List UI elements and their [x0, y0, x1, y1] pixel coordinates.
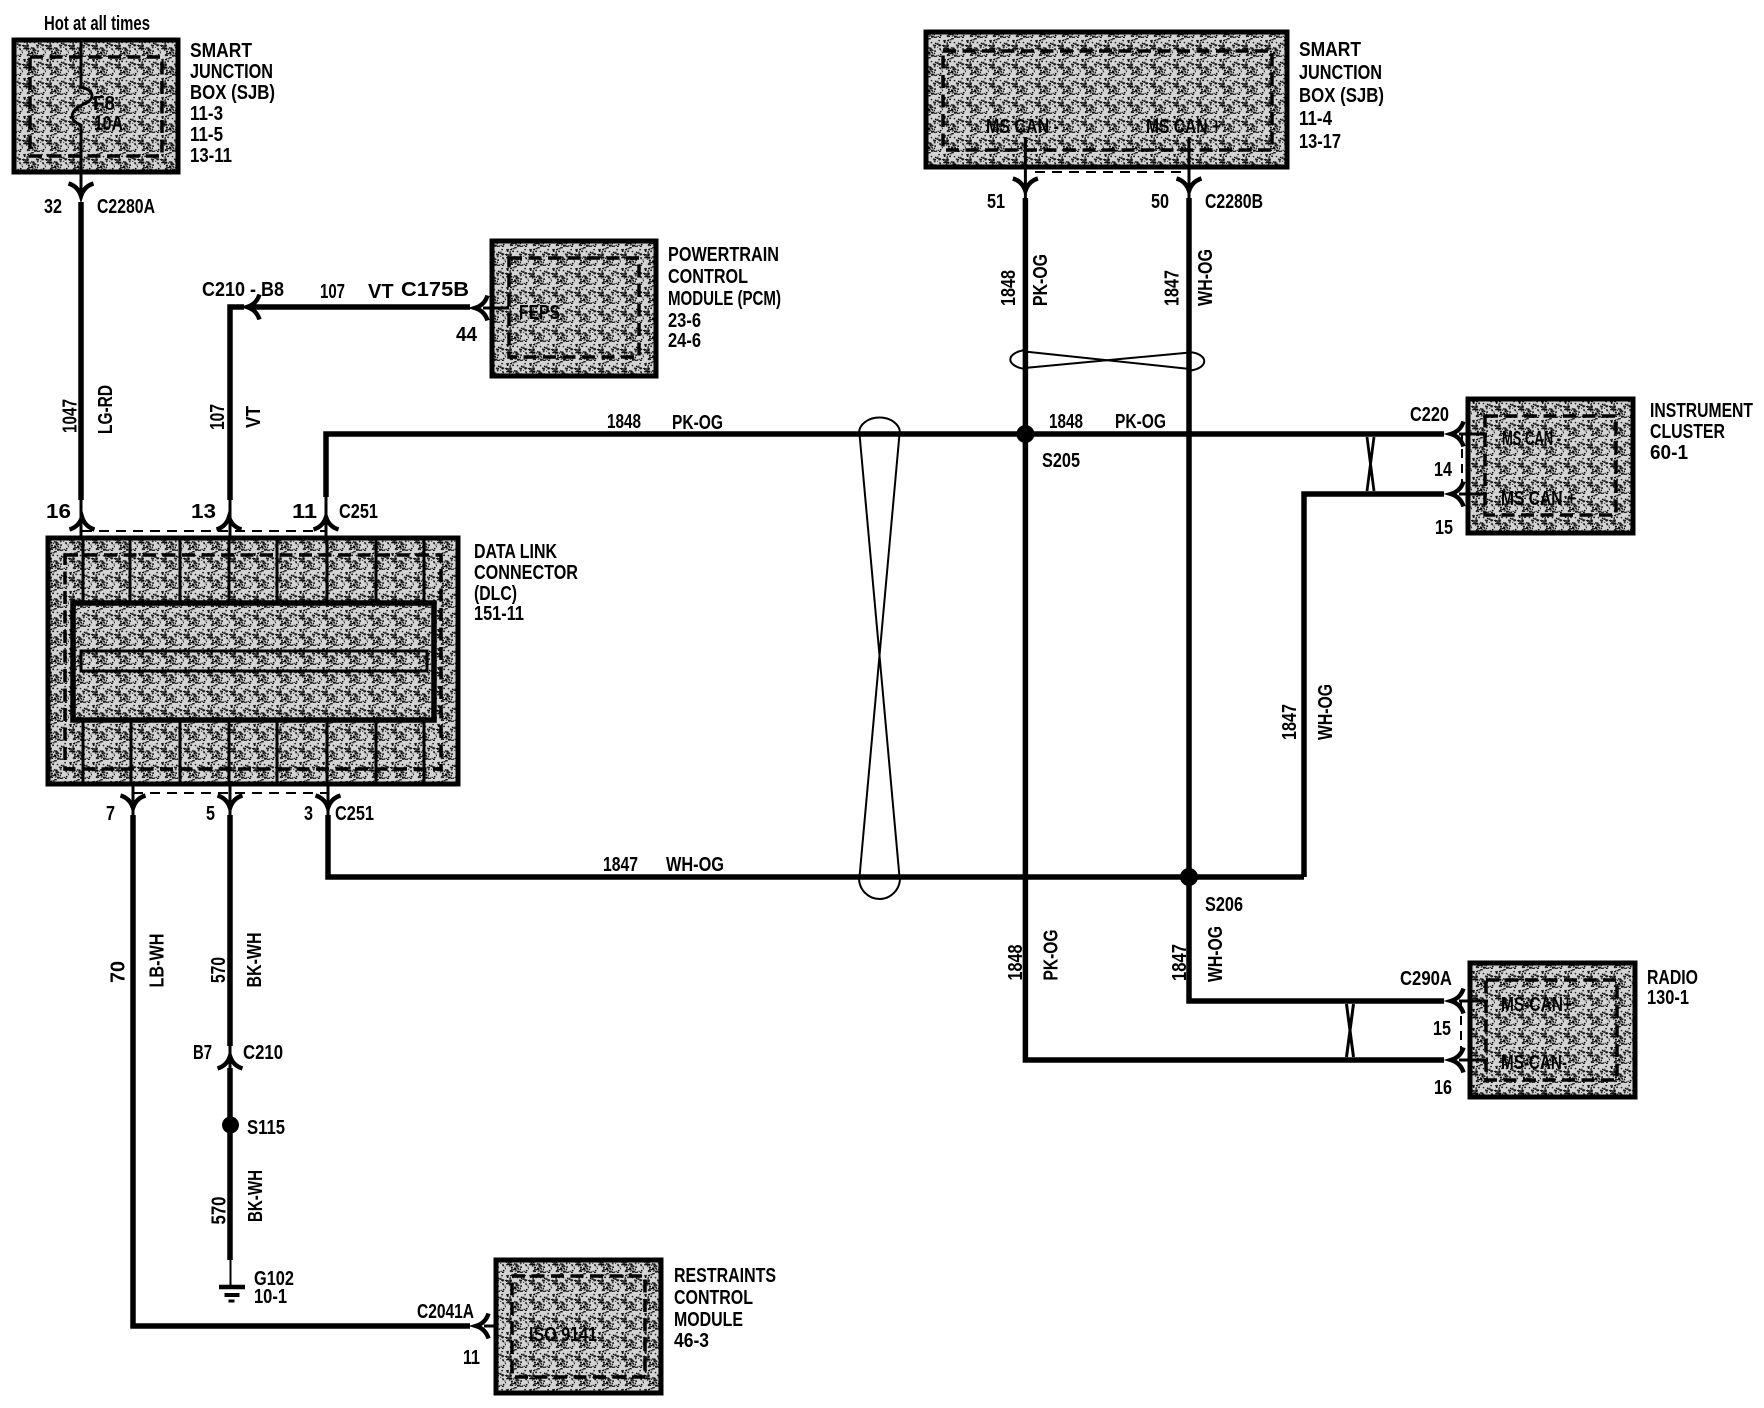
twisted pair symbol at radio: [1347, 1004, 1354, 1057]
radio box: [1470, 963, 1635, 1097]
svg-text:CLUSTER: CLUSTER: [1650, 421, 1725, 443]
svg-text:1847: 1847: [1169, 944, 1191, 981]
svg-text:C210: C210: [243, 1042, 283, 1064]
svg-text:50: 50: [1151, 191, 1169, 213]
svg-text:SMART: SMART: [1299, 39, 1361, 61]
svg-text:44: 44: [456, 324, 478, 346]
svg-text:PK-OG: PK-OG: [1115, 411, 1166, 433]
connector C220 pin 15 arrow: [1451, 482, 1464, 507]
wire stub pin 51: [1024, 137, 1027, 200]
svg-text:POWERTRAIN: POWERTRAIN: [668, 244, 779, 266]
svg-text:F8: F8: [93, 93, 115, 115]
svg-text:LB-WH: LB-WH: [147, 934, 169, 988]
wire 1847 WH-OG vertical: [1186, 198, 1192, 877]
twisted pair symbol vertical (between 1848/1847 horizontals): [859, 418, 900, 900]
wire 1848 PK-OG horizontal from DLC pin 11: [326, 434, 1444, 497]
fuse F8 10A: [72, 87, 92, 125]
svg-text:MS CAN +: MS CAN +: [1146, 116, 1221, 138]
svg-text:PK-OG: PK-OG: [1041, 930, 1063, 981]
svg-text:S206: S206: [1205, 894, 1243, 916]
svg-text:LG-RD: LG-RD: [95, 385, 117, 434]
svg-text:MODULE: MODULE: [674, 1309, 743, 1331]
svg-text:1047: 1047: [60, 399, 82, 433]
svg-text:C2280A: C2280A: [97, 196, 155, 218]
powertrain control module PCM: [492, 241, 656, 376]
svg-text:C2041A: C2041A: [417, 1301, 474, 1323]
wire 1848 PK-OG vertical: [1023, 198, 1029, 434]
svg-text:107: 107: [320, 281, 345, 303]
svg-text:B7: B7: [193, 1042, 212, 1064]
connector C175B arrow pin 44: [475, 296, 488, 321]
connector C220 dashed boundary: [1461, 434, 1463, 494]
label instrument cluster: [1650, 400, 1753, 464]
svg-text:15: 15: [1435, 517, 1453, 539]
svg-text:MODULE (PCM): MODULE (PCM): [668, 288, 781, 310]
svg-text:MS-CAN+: MS-CAN+: [1501, 994, 1572, 1016]
svg-text:CONTROL: CONTROL: [668, 266, 748, 288]
svg-text:14: 14: [1434, 459, 1453, 481]
wire 1847 WH-OG S206 down to radio: [1189, 877, 1444, 1001]
svg-text:BOX (SJB): BOX (SJB): [190, 82, 275, 104]
svg-text:11-5: 11-5: [190, 124, 223, 146]
svg-text:WH-OG: WH-OG: [1205, 926, 1227, 982]
svg-text:S205: S205: [1042, 450, 1080, 472]
svg-text:WH-OG: WH-OG: [666, 854, 724, 876]
label SJB left: [190, 40, 275, 167]
label radio: [1647, 967, 1698, 1009]
svg-text:3: 3: [304, 803, 313, 825]
label PCM: [668, 244, 781, 352]
svg-text:16: 16: [1434, 1077, 1452, 1099]
svg-text:VT: VT: [368, 281, 394, 303]
splice S205: [1016, 425, 1034, 443]
DLC top pin lines: [83, 538, 424, 603]
svg-text:70: 70: [108, 961, 130, 983]
svg-text:Hot at all times: Hot at all times: [44, 13, 150, 35]
wire pin5 stub: [229, 784, 232, 815]
connector C2280B dashed boundary: [1035, 171, 1183, 173]
connector C2280B pin 50 arrow: [1177, 179, 1202, 192]
svg-text:PK-OG: PK-OG: [1030, 254, 1052, 306]
wire 1847 WH-OG up to cluster: [1304, 494, 1444, 877]
connector C251 pin 16 arrow: [70, 517, 95, 530]
connector C210 pin B8 arrow: [247, 295, 260, 320]
connector C290A dashed boundary: [1460, 1001, 1462, 1060]
svg-text:10-1: 10-1: [254, 1286, 287, 1308]
connector C210 pin B7 arrow: [229, 1046, 232, 1072]
svg-text:1847: 1847: [603, 854, 638, 876]
data link connector DLC box: [48, 538, 458, 784]
splice S115: [222, 1117, 239, 1134]
wire 1047 LG-RD: [78, 202, 84, 500]
svg-text:1848: 1848: [1049, 411, 1083, 433]
smart junction box SJB (left): [14, 40, 178, 172]
label DLC: [474, 541, 578, 625]
wire to S115: [227, 1068, 233, 1260]
connector C2280A arrow pin 32: [69, 184, 94, 197]
svg-text:1848: 1848: [998, 270, 1020, 306]
svg-text:11: 11: [292, 501, 317, 523]
svg-text:1847: 1847: [1162, 270, 1184, 306]
svg-text:BK-WH: BK-WH: [245, 1170, 267, 1222]
svg-text:VT: VT: [243, 406, 265, 428]
svg-text:WH-OG: WH-OG: [1315, 684, 1337, 740]
connector C251 pin 3 arrow: [316, 796, 341, 809]
connector C251 pin 7 arrow: [121, 796, 146, 809]
wire pin7 stub: [132, 784, 135, 815]
connector C251 top: dashed boundary: [82, 530, 326, 532]
twisted pair symbol horizontal (below SJB middle): [1010, 350, 1204, 371]
svg-text:INSTRUMENT: INSTRUMENT: [1650, 400, 1753, 422]
svg-text:11-4: 11-4: [1299, 108, 1333, 130]
svg-text:11: 11: [463, 1347, 480, 1369]
svg-text:ISO 9141: ISO 9141: [529, 1324, 597, 1346]
svg-text:151-11: 151-11: [474, 603, 524, 625]
svg-text:10A: 10A: [94, 113, 123, 135]
splice S206: [1180, 868, 1198, 886]
svg-text:C290A: C290A: [1400, 968, 1452, 990]
wire 1847 WH-OG horizontal from DLC pin 3: [328, 815, 1304, 877]
wire 107 VT vertical: [230, 307, 244, 500]
svg-text:7: 7: [106, 803, 115, 825]
wire 570 BK-WH upper: [227, 815, 233, 1046]
connector C2280B pin 51 arrow: [1013, 179, 1038, 192]
svg-text:51: 51: [987, 191, 1005, 213]
svg-text:24-6: 24-6: [668, 330, 701, 352]
svg-text:C220: C220: [1410, 404, 1449, 426]
svg-text:107: 107: [207, 404, 229, 430]
svg-text:15: 15: [1433, 1018, 1451, 1040]
svg-text:C210 - B8: C210 - B8: [202, 279, 284, 301]
connector C220 pin 14 arrow: [1451, 422, 1464, 447]
connector C251 pin 5 arrow: [218, 796, 243, 809]
svg-text:CONTROL: CONTROL: [674, 1287, 753, 1309]
smart junction box SJB (top middle): [926, 32, 1287, 167]
svg-text:13-17: 13-17: [1299, 131, 1341, 153]
restraints control module RCM box: [496, 1260, 661, 1393]
svg-text:130-1: 130-1: [1647, 987, 1689, 1009]
svg-text:DATA LINK: DATA LINK: [474, 541, 557, 563]
connector C290A pin 15 arrow: [1451, 989, 1464, 1014]
wire 107 VT horizontal: [252, 304, 470, 310]
svg-text:WH-OG: WH-OG: [1195, 249, 1217, 306]
wire fuse to connector C2280A: [80, 124, 83, 197]
connector C251 pin 13 arrow: [217, 517, 242, 530]
ground G102: [230, 1260, 232, 1287]
svg-text:PK-OG: PK-OG: [672, 412, 723, 434]
label RCM: [674, 1265, 776, 1352]
connector C290A pin 16 arrow: [1451, 1048, 1464, 1073]
svg-text:RESTRAINTS: RESTRAINTS: [674, 1265, 776, 1287]
svg-text:46-3: 46-3: [674, 1330, 709, 1352]
svg-text:(DLC): (DLC): [474, 583, 517, 605]
svg-text:C251: C251: [339, 501, 378, 523]
svg-text:1848: 1848: [607, 411, 641, 433]
svg-text:FEPS: FEPS: [519, 302, 560, 324]
svg-text:5: 5: [206, 803, 215, 825]
wire stub pin 50: [1188, 137, 1191, 200]
svg-text:C175B: C175B: [401, 279, 469, 301]
wire 70 LB-WH: [133, 815, 470, 1326]
svg-text:CONNECTOR: CONNECTOR: [474, 562, 578, 584]
svg-text:RADIO: RADIO: [1647, 967, 1698, 989]
svg-text:60-1: 60-1: [1650, 442, 1688, 464]
twisted pair symbol at cluster: [1367, 437, 1374, 491]
svg-text:BK-WH: BK-WH: [244, 933, 266, 988]
connector C2041A arrow pin 11: [476, 1314, 489, 1339]
svg-text:11-3: 11-3: [190, 103, 223, 125]
svg-text:32: 32: [44, 196, 62, 218]
svg-text:MS-CAN-: MS-CAN-: [1501, 1052, 1567, 1074]
svg-text:13: 13: [191, 501, 216, 523]
svg-text:1847: 1847: [1279, 704, 1301, 740]
svg-text:13-11: 13-11: [190, 145, 232, 167]
wire into fuse: [80, 40, 83, 88]
svg-text:MS CAN -: MS CAN -: [986, 116, 1059, 138]
svg-text:MS CAN -: MS CAN -: [1502, 428, 1561, 450]
svg-text:S115: S115: [247, 1117, 285, 1139]
label SJB middle: [1299, 39, 1384, 153]
svg-text:570: 570: [208, 957, 230, 983]
instrument cluster box: [1468, 399, 1633, 533]
svg-text:BOX (SJB): BOX (SJB): [1299, 85, 1384, 107]
svg-text:SMART: SMART: [190, 40, 252, 62]
svg-text:1848: 1848: [1005, 945, 1027, 981]
svg-text:MS CAN +: MS CAN +: [1501, 488, 1576, 510]
svg-text:JUNCTION: JUNCTION: [190, 61, 273, 83]
svg-text:C2280B: C2280B: [1205, 191, 1263, 213]
svg-text:570: 570: [209, 1197, 231, 1225]
svg-text:JUNCTION: JUNCTION: [1299, 62, 1382, 84]
wire pin3 stub: [327, 784, 330, 815]
svg-text:16: 16: [46, 501, 71, 523]
svg-text:C251: C251: [335, 803, 374, 825]
wire 1848 PK-OG down to radio: [1025, 434, 1444, 1060]
DLC bottom pin lines: [83, 720, 424, 784]
svg-text:23-6: 23-6: [668, 310, 701, 332]
connector C251 bottom: dashed boundary: [133, 792, 328, 794]
connector C251 pin 11 arrow: [314, 517, 339, 530]
